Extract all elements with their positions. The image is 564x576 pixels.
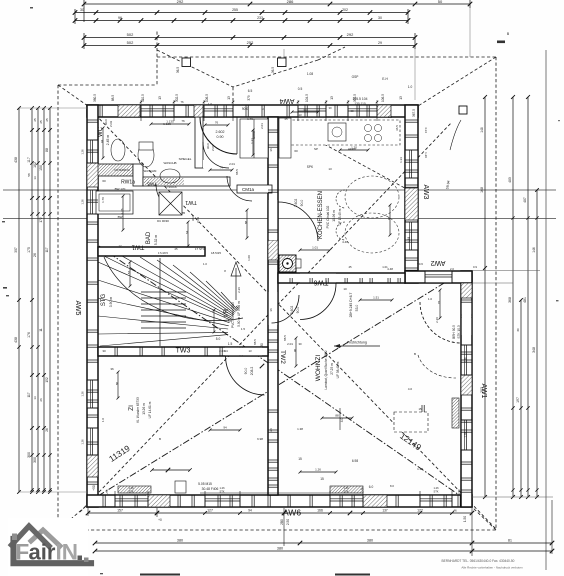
svg-text:2.602: 2.602 bbox=[294, 199, 298, 208]
svg-text:SPK: SPK bbox=[307, 165, 314, 169]
svg-text:1.38: 1.38 bbox=[417, 467, 423, 471]
svg-text:88: 88 bbox=[244, 221, 248, 225]
svg-text:58: 58 bbox=[27, 173, 31, 177]
svg-text:6.0: 6.0 bbox=[369, 485, 374, 489]
svg-text:60: 60 bbox=[102, 179, 106, 183]
svg-text:1.26: 1.26 bbox=[424, 152, 428, 158]
svg-text:45: 45 bbox=[284, 117, 288, 121]
svg-text:BAD: BAD bbox=[146, 231, 152, 244]
svg-text:300: 300 bbox=[27, 452, 31, 458]
svg-text:GARD: GARD bbox=[252, 131, 256, 139]
svg-text:148: 148 bbox=[480, 127, 484, 133]
svg-text:122: 122 bbox=[417, 509, 423, 513]
svg-text:TW2: TW2 bbox=[279, 350, 286, 364]
svg-text:30: 30 bbox=[80, 8, 84, 12]
svg-text:380.5: 380.5 bbox=[93, 94, 97, 102]
svg-text:UF 38.49 m: UF 38.49 m bbox=[336, 361, 340, 378]
svg-text:106.5: 106.5 bbox=[381, 94, 385, 102]
svg-text:UF 14.61 m: UF 14.61 m bbox=[148, 401, 152, 418]
svg-text:90.0: 90.0 bbox=[296, 307, 300, 314]
svg-text:106.5: 106.5 bbox=[205, 94, 209, 102]
svg-text:30: 30 bbox=[298, 342, 302, 346]
svg-text:TW5: TW5 bbox=[147, 182, 157, 187]
svg-text:74: 74 bbox=[219, 166, 223, 170]
svg-text:172: 172 bbox=[39, 217, 43, 223]
svg-text:252: 252 bbox=[247, 40, 254, 45]
svg-text:292: 292 bbox=[177, 0, 184, 4]
svg-text:1.26: 1.26 bbox=[81, 199, 85, 205]
svg-text:88.5: 88.5 bbox=[111, 95, 115, 101]
svg-text:233: 233 bbox=[257, 16, 263, 20]
svg-text:AW5: AW5 bbox=[74, 301, 81, 316]
svg-text:300: 300 bbox=[33, 457, 37, 463]
svg-text:36: 36 bbox=[110, 367, 114, 371]
svg-text:380: 380 bbox=[367, 539, 373, 543]
svg-text:4.34: 4.34 bbox=[424, 127, 428, 133]
svg-text:117: 117 bbox=[27, 392, 31, 397]
svg-text:PVC Cristal 102: PVC Cristal 102 bbox=[326, 205, 330, 228]
svg-text:12: 12 bbox=[118, 244, 122, 248]
svg-text:36: 36 bbox=[269, 308, 273, 312]
svg-text:94: 94 bbox=[248, 509, 252, 513]
svg-text:2.01: 2.01 bbox=[287, 342, 293, 346]
svg-text:Kl. Wunder 63733: Kl. Wunder 63733 bbox=[136, 397, 140, 423]
svg-text:45: 45 bbox=[348, 265, 352, 269]
svg-text:AW6: AW6 bbox=[283, 508, 301, 518]
svg-text:WOHNZI: WOHNZI bbox=[315, 355, 322, 382]
svg-text:146: 146 bbox=[532, 247, 536, 253]
svg-text:36.5: 36.5 bbox=[176, 67, 180, 73]
svg-text:88.5: 88.5 bbox=[283, 335, 287, 341]
svg-text:10.96 m: 10.96 m bbox=[332, 210, 336, 222]
svg-text:STK: STK bbox=[433, 490, 438, 494]
svg-text:5.90 m UF 9.56 m: 5.90 m UF 9.56 m bbox=[237, 301, 241, 327]
svg-text:30: 30 bbox=[260, 343, 264, 347]
svg-text:1.26: 1.26 bbox=[433, 486, 439, 490]
svg-text:1.26: 1.26 bbox=[464, 432, 468, 438]
svg-text:438: 438 bbox=[14, 337, 18, 343]
svg-text:26: 26 bbox=[33, 253, 37, 257]
svg-text:AW1: AW1 bbox=[480, 384, 487, 399]
svg-text:302.5: 302.5 bbox=[353, 94, 357, 102]
svg-text:2.01: 2.01 bbox=[260, 123, 264, 129]
svg-text:26: 26 bbox=[45, 428, 49, 432]
svg-text:150: 150 bbox=[39, 165, 43, 171]
svg-text:GSP: GSP bbox=[352, 75, 359, 79]
svg-text:50: 50 bbox=[438, 0, 443, 4]
svg-text:90.0: 90.0 bbox=[104, 119, 108, 125]
svg-text:25: 25 bbox=[45, 118, 49, 122]
svg-text:1.26: 1.26 bbox=[81, 439, 85, 445]
svg-text:96: 96 bbox=[387, 217, 391, 221]
svg-text:90.0: 90.0 bbox=[206, 143, 210, 149]
svg-text:76: 76 bbox=[181, 119, 185, 123]
svg-text:94: 94 bbox=[223, 426, 227, 430]
svg-text:BRH 90.5: BRH 90.5 bbox=[452, 325, 456, 339]
svg-text:+0: +0 bbox=[158, 518, 162, 522]
svg-text:VR: VR bbox=[224, 308, 230, 317]
svg-text:90.6: 90.6 bbox=[417, 262, 423, 266]
svg-text:8.0: 8.0 bbox=[390, 484, 394, 488]
svg-text:13: 13 bbox=[399, 96, 403, 100]
svg-text:5.0: 5.0 bbox=[228, 319, 233, 323]
svg-text:1.33: 1.33 bbox=[399, 157, 403, 163]
svg-text:5.0: 5.0 bbox=[216, 337, 221, 341]
svg-text:11: 11 bbox=[39, 328, 43, 332]
svg-text:1.26: 1.26 bbox=[315, 468, 321, 472]
svg-text:+50: +50 bbox=[92, 485, 96, 491]
svg-text:4.48: 4.48 bbox=[387, 267, 393, 271]
svg-text:1.70: 1.70 bbox=[101, 197, 105, 203]
svg-text:1.76: 1.76 bbox=[120, 208, 124, 214]
svg-text:2.50: 2.50 bbox=[286, 519, 290, 525]
svg-text:AW4: AW4 bbox=[279, 97, 294, 104]
svg-text:0.5: 0.5 bbox=[388, 115, 393, 119]
svg-text:208.2: 208.2 bbox=[250, 367, 254, 376]
svg-text:127: 127 bbox=[207, 509, 213, 513]
svg-text:46: 46 bbox=[453, 509, 457, 513]
svg-text:286: 286 bbox=[287, 0, 294, 4]
svg-text:2B0: 2B0 bbox=[280, 519, 284, 525]
svg-text:94: 94 bbox=[100, 140, 104, 144]
svg-text:BW 170: BW 170 bbox=[115, 187, 126, 191]
svg-text:81: 81 bbox=[508, 539, 512, 543]
svg-text:202: 202 bbox=[342, 8, 348, 12]
svg-text:96: 96 bbox=[118, 16, 122, 20]
svg-text:13: 13 bbox=[33, 176, 37, 180]
svg-text:DU 90/90: DU 90/90 bbox=[157, 219, 169, 223]
svg-text:SPIEGEL: SPIEGEL bbox=[179, 157, 192, 161]
svg-text:1.76: 1.76 bbox=[247, 117, 253, 121]
svg-text:13: 13 bbox=[248, 349, 252, 353]
svg-text:STK: STK bbox=[343, 490, 348, 494]
svg-text:STK 10.3: STK 10.3 bbox=[457, 325, 461, 339]
svg-text:137: 137 bbox=[382, 509, 388, 513]
svg-text:1.50: 1.50 bbox=[463, 516, 467, 522]
svg-text:CM1a: CM1a bbox=[242, 187, 255, 192]
svg-text:348: 348 bbox=[532, 347, 536, 353]
svg-text:6.98: 6.98 bbox=[352, 459, 358, 463]
svg-text:90: 90 bbox=[293, 349, 297, 353]
svg-text:380: 380 bbox=[277, 547, 283, 551]
svg-text:STG: STG bbox=[101, 294, 107, 307]
svg-text:1.31: 1.31 bbox=[250, 138, 254, 144]
svg-text:STK: STK bbox=[219, 490, 224, 494]
svg-text:25: 25 bbox=[33, 118, 37, 122]
svg-text:36.5: 36.5 bbox=[395, 125, 399, 131]
svg-text:13: 13 bbox=[328, 167, 332, 171]
svg-text:88.5: 88.5 bbox=[253, 339, 257, 345]
svg-text:BERNHARDT TEL. 0561/430440-0: BERNHARDT TEL. 0561/430440-0 Fax. 430440… bbox=[442, 559, 515, 563]
svg-text:6.5: 6.5 bbox=[248, 89, 253, 93]
svg-text:36.5: 36.5 bbox=[271, 67, 275, 73]
svg-text:KOCHEN-ESSEN: KOCHEN-ESSEN bbox=[318, 191, 324, 239]
svg-text:30.48 F406: 30.48 F406 bbox=[202, 487, 219, 491]
svg-text:1.135: 1.135 bbox=[166, 120, 174, 124]
svg-text:481: 481 bbox=[523, 297, 527, 303]
svg-text:90.0: 90.0 bbox=[300, 200, 304, 207]
svg-text:157: 157 bbox=[117, 509, 123, 513]
svg-text:13: 13 bbox=[158, 96, 162, 100]
svg-text:1.0: 1.0 bbox=[428, 297, 433, 301]
svg-text:0.9: 0.9 bbox=[473, 265, 477, 269]
svg-text:76: 76 bbox=[180, 100, 184, 104]
svg-text:B: B bbox=[159, 437, 161, 441]
svg-text:1.20: 1.20 bbox=[351, 146, 357, 150]
svg-text:AW2: AW2 bbox=[430, 259, 445, 266]
svg-text:4.46: 4.46 bbox=[342, 240, 348, 244]
svg-text:104.5: 104.5 bbox=[305, 94, 309, 102]
svg-text:1.26: 1.26 bbox=[128, 486, 134, 490]
svg-text:13.26 m: 13.26 m bbox=[142, 403, 146, 415]
svg-text:25: 25 bbox=[174, 247, 178, 251]
svg-text:2.602: 2.602 bbox=[290, 306, 294, 315]
svg-text:24: 24 bbox=[269, 428, 273, 432]
svg-text:53.0: 53.0 bbox=[355, 305, 359, 312]
svg-text:168: 168 bbox=[480, 187, 484, 193]
svg-text:2B+9.245 D+8.7: 2B+9.245 D+8.7 bbox=[349, 293, 353, 318]
svg-text:2.01: 2.01 bbox=[229, 162, 235, 166]
svg-text:110.5: 110.5 bbox=[141, 94, 145, 102]
svg-text:90.0: 90.0 bbox=[242, 107, 248, 111]
svg-text:166: 166 bbox=[317, 509, 323, 513]
svg-text:5.05 M15: 5.05 M15 bbox=[198, 482, 212, 486]
svg-text:ZI: ZI bbox=[128, 405, 135, 411]
svg-text:1.08: 1.08 bbox=[307, 72, 313, 76]
svg-text:88.5: 88.5 bbox=[235, 169, 239, 175]
svg-text:255: 255 bbox=[232, 8, 238, 12]
svg-text:Alle Rechte vorbehalten - Na: Alle Rechte vorbehalten - Nachdruck verb… bbox=[461, 566, 523, 570]
svg-text:64: 64 bbox=[185, 231, 189, 235]
svg-text:4.0: 4.0 bbox=[408, 387, 413, 391]
svg-text:IN: IN bbox=[56, 540, 79, 565]
svg-text:292: 292 bbox=[347, 32, 354, 37]
svg-text:2.09: 2.09 bbox=[109, 121, 113, 127]
svg-text:175: 175 bbox=[27, 247, 31, 253]
svg-text:1.51: 1.51 bbox=[373, 296, 379, 300]
svg-text:30: 30 bbox=[328, 106, 332, 110]
svg-text:13: 13 bbox=[330, 96, 334, 100]
svg-text:1.26: 1.26 bbox=[81, 391, 85, 397]
svg-text:1.26: 1.26 bbox=[343, 486, 349, 490]
svg-text:438: 438 bbox=[14, 157, 18, 163]
svg-text:2.45 m: 2.45 m bbox=[106, 135, 110, 146]
svg-text:29: 29 bbox=[378, 41, 382, 45]
svg-text:Laminat, Quart Buche 1362: Laminat, Quart Buche 1362 bbox=[324, 350, 328, 389]
svg-text:368: 368 bbox=[508, 297, 512, 303]
svg-text:80: 80 bbox=[115, 382, 119, 386]
svg-text:UF 13.45 m: UF 13.45 m bbox=[338, 208, 342, 225]
svg-text:13: 13 bbox=[227, 96, 231, 100]
svg-text:UNTERZUG: UNTERZUG bbox=[114, 168, 130, 172]
svg-text:1.26: 1.26 bbox=[219, 486, 225, 490]
svg-text:2.09: 2.09 bbox=[211, 145, 215, 151]
svg-text:502: 502 bbox=[127, 32, 134, 37]
svg-text:10: 10 bbox=[343, 287, 347, 291]
svg-text:1.0: 1.0 bbox=[101, 418, 105, 423]
svg-text:WASCHM: WASCHM bbox=[144, 169, 157, 173]
svg-text:1.01: 1.01 bbox=[382, 265, 388, 269]
svg-text:90.0: 90.0 bbox=[244, 368, 248, 375]
svg-text:2.0: 2.0 bbox=[450, 267, 454, 271]
svg-text:380: 380 bbox=[177, 539, 183, 543]
svg-text:B: B bbox=[414, 352, 416, 356]
svg-text:176: 176 bbox=[27, 332, 31, 338]
svg-text:2.09: 2.09 bbox=[196, 217, 200, 223]
svg-text:25: 25 bbox=[39, 120, 43, 124]
svg-text:PVC Fliesen OW5: PVC Fliesen OW5 bbox=[231, 302, 235, 328]
svg-text:30: 30 bbox=[378, 16, 382, 20]
svg-text:AW3: AW3 bbox=[422, 185, 429, 200]
svg-text:TW1: TW1 bbox=[185, 199, 197, 205]
svg-text:60: 60 bbox=[350, 109, 354, 113]
svg-text:26: 26 bbox=[39, 398, 43, 402]
svg-text:E-H: E-H bbox=[382, 77, 388, 81]
svg-text:1.26: 1.26 bbox=[81, 149, 85, 155]
svg-text:15: 15 bbox=[418, 407, 422, 411]
svg-text:2.26: 2.26 bbox=[435, 317, 439, 323]
svg-text:90.0: 90.0 bbox=[191, 215, 195, 221]
svg-text:1.5: 1.5 bbox=[241, 327, 246, 331]
svg-text:air: air bbox=[29, 540, 56, 565]
svg-text:88: 88 bbox=[335, 414, 339, 418]
svg-text:94: 94 bbox=[224, 349, 228, 353]
svg-text:0.5: 0.5 bbox=[298, 87, 303, 91]
svg-text:BW: BW bbox=[118, 215, 123, 219]
svg-text:13: 13 bbox=[261, 107, 265, 111]
svg-text:2.602: 2.602 bbox=[216, 130, 225, 134]
svg-text:13: 13 bbox=[33, 396, 37, 400]
svg-text:1.01: 1.01 bbox=[312, 246, 318, 250]
svg-text:57: 57 bbox=[127, 271, 131, 275]
svg-text:3.90 m: 3.90 m bbox=[109, 297, 113, 308]
svg-text:TROCK: TROCK bbox=[167, 185, 177, 189]
svg-text:0.90: 0.90 bbox=[217, 135, 224, 139]
svg-text:+50: +50 bbox=[105, 489, 109, 494]
svg-text:302.5: 302.5 bbox=[175, 94, 179, 102]
svg-text:117: 117 bbox=[27, 157, 31, 163]
svg-text:TW1: TW1 bbox=[131, 244, 144, 250]
svg-text:1.0: 1.0 bbox=[208, 102, 212, 106]
svg-text:367.5: 367.5 bbox=[412, 109, 416, 117]
svg-text:1.00: 1.00 bbox=[247, 255, 251, 261]
svg-text:487: 487 bbox=[523, 197, 527, 203]
svg-text:1.50: 1.50 bbox=[457, 489, 461, 495]
svg-text:13: 13 bbox=[298, 113, 302, 117]
svg-text:27.25 m: 27.25 m bbox=[330, 363, 334, 375]
svg-text:15: 15 bbox=[320, 477, 324, 481]
svg-text:6.98: 6.98 bbox=[257, 437, 263, 441]
svg-text:307: 307 bbox=[14, 247, 18, 253]
svg-text:5.32 m: 5.32 m bbox=[154, 235, 158, 246]
svg-text:15: 15 bbox=[360, 487, 364, 491]
svg-text:30: 30 bbox=[102, 349, 106, 353]
svg-text:117: 117 bbox=[45, 247, 49, 252]
svg-text:SP: SP bbox=[314, 147, 318, 151]
svg-text:76: 76 bbox=[215, 121, 219, 125]
svg-text:18.5/25: 18.5/25 bbox=[211, 251, 221, 255]
svg-text:1.38: 1.38 bbox=[297, 427, 303, 431]
svg-text:17x18.5: 17x18.5 bbox=[158, 251, 168, 255]
svg-text:502: 502 bbox=[127, 40, 134, 45]
svg-text:STK: STK bbox=[128, 490, 133, 494]
svg-text:2.26: 2.26 bbox=[237, 287, 241, 293]
svg-text:15: 15 bbox=[298, 457, 302, 461]
svg-text:30: 30 bbox=[516, 328, 520, 332]
svg-text:88: 88 bbox=[45, 148, 49, 152]
svg-text:76: 76 bbox=[437, 301, 441, 305]
svg-text:102: 102 bbox=[33, 162, 37, 168]
svg-text:17 STG: 17 STG bbox=[195, 247, 206, 251]
svg-text:1.0: 1.0 bbox=[203, 262, 207, 266]
svg-text:F: F bbox=[16, 540, 30, 565]
svg-text:379: 379 bbox=[247, 95, 251, 101]
svg-text:TW3: TW3 bbox=[176, 348, 191, 355]
svg-text:RW1a: RW1a bbox=[121, 180, 135, 186]
svg-text:60: 60 bbox=[294, 149, 298, 153]
svg-text:Firstrichtung: Firstrichtung bbox=[347, 341, 367, 345]
svg-text:WASCHB: WASCHB bbox=[163, 161, 176, 165]
svg-text:1.5: 1.5 bbox=[228, 342, 233, 346]
svg-text:36: 36 bbox=[269, 148, 273, 152]
svg-text:1.0: 1.0 bbox=[408, 85, 413, 89]
svg-text:152: 152 bbox=[45, 377, 49, 383]
svg-text:480: 480 bbox=[508, 177, 512, 183]
svg-text:197: 197 bbox=[516, 397, 520, 403]
